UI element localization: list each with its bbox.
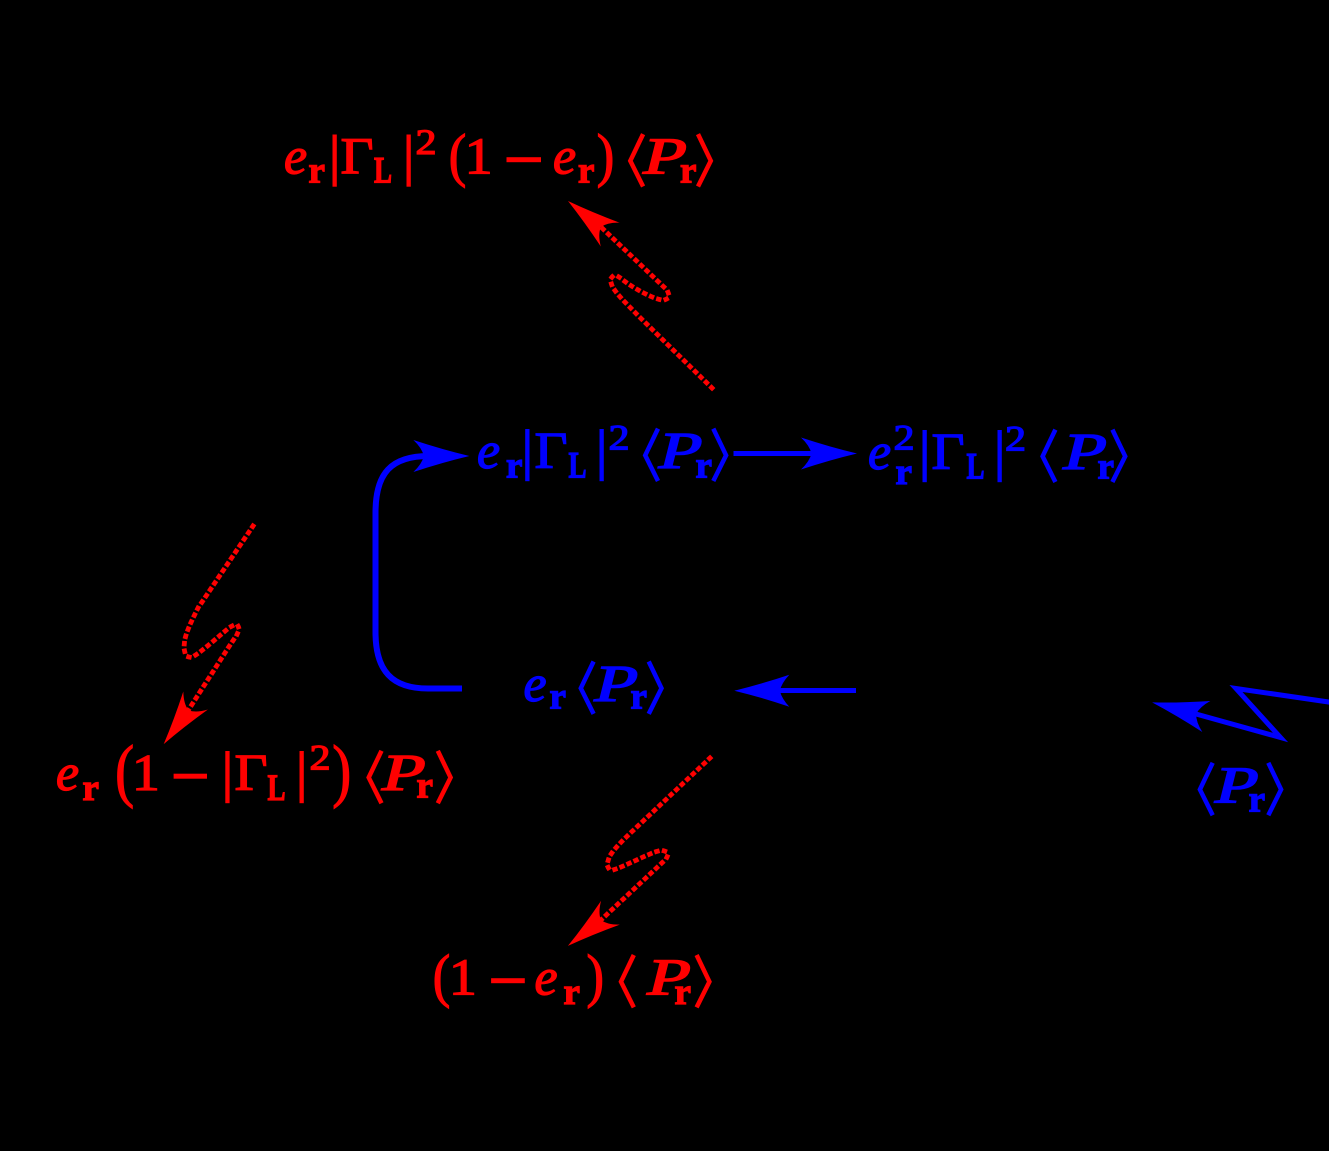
svg-text:1: 1 xyxy=(132,745,160,802)
svg-text:2: 2 xyxy=(310,737,331,777)
svg-text:r: r xyxy=(696,446,712,487)
svg-text:1: 1 xyxy=(449,950,477,1007)
svg-text:Γ: Γ xyxy=(535,423,568,480)
svg-text:r: r xyxy=(578,151,594,192)
node: top red formula e_r|Gamma_L|^2 (1-e_r) <P_r> xyxy=(284,122,711,192)
svg-text:L: L xyxy=(374,151,392,192)
svg-text:1: 1 xyxy=(465,129,493,186)
svg-text:e: e xyxy=(535,950,558,1007)
svg-text:(: ( xyxy=(449,122,467,188)
node: bottom red formula (1-e_r)<P_r> xyxy=(433,943,710,1013)
svg-text:r: r xyxy=(550,677,566,718)
svg-text:): ) xyxy=(332,733,351,810)
svg-text:r: r xyxy=(506,446,522,487)
svg-text:L: L xyxy=(268,768,286,809)
svg-text:r: r xyxy=(675,972,691,1013)
svg-text:r: r xyxy=(631,677,647,718)
svg-text:): ) xyxy=(597,122,615,188)
svg-text:e: e xyxy=(524,656,547,713)
svg-text:r: r xyxy=(564,972,580,1013)
node: right blue formula e_r^2|Gamma_L|^2 <P_r> xyxy=(868,418,1125,493)
svg-text:L: L xyxy=(967,447,985,488)
svg-text:e: e xyxy=(477,423,500,480)
node: right blue label <P_r> xyxy=(1200,757,1281,820)
node: middle blue formula e_r|Gamma_L|^2 <P_r> xyxy=(477,417,726,486)
svg-text:2: 2 xyxy=(416,122,437,162)
wire: red dotted squiggle arrow to left formula xyxy=(164,526,253,744)
svg-text:r: r xyxy=(417,766,433,807)
svg-text:e: e xyxy=(56,745,79,802)
wire: blue straight arrow B -> C xyxy=(734,438,858,470)
svg-text:r: r xyxy=(309,151,325,192)
wire: blue loop arrow from e_r<P_r> up to e_r|Gamma_L|^2<P_r> xyxy=(376,440,470,689)
svg-text:(: ( xyxy=(433,943,451,1009)
wire: blue zigzag incoming arrow from right edge xyxy=(1152,689,1329,738)
svg-text:r: r xyxy=(896,452,912,493)
svg-text:Γ: Γ xyxy=(235,745,268,802)
wire: red dotted squiggle arrow to top formula xyxy=(568,201,712,388)
svg-text:L: L xyxy=(569,446,587,487)
wire: blue straight arrow pointing left at e_r<P_r> xyxy=(734,675,856,707)
svg-text:e: e xyxy=(868,424,891,481)
svg-text:2: 2 xyxy=(1005,419,1026,459)
svg-text:r: r xyxy=(680,151,696,192)
svg-text:Γ: Γ xyxy=(932,424,965,481)
node: left red formula e_r(1-|Gamma_L|^2)<P_r> xyxy=(56,733,451,810)
svg-text:r: r xyxy=(1249,780,1265,821)
svg-text:e: e xyxy=(284,129,307,186)
svg-text:r: r xyxy=(83,768,99,809)
wire: red dotted squiggle arrow to bottom formula xyxy=(568,758,710,946)
svg-text:Γ: Γ xyxy=(341,129,374,186)
svg-text:): ) xyxy=(587,943,605,1009)
node: lower blue formula e_r <P_r> xyxy=(524,656,662,718)
svg-text:2: 2 xyxy=(609,417,630,457)
svg-text:e: e xyxy=(553,129,576,186)
